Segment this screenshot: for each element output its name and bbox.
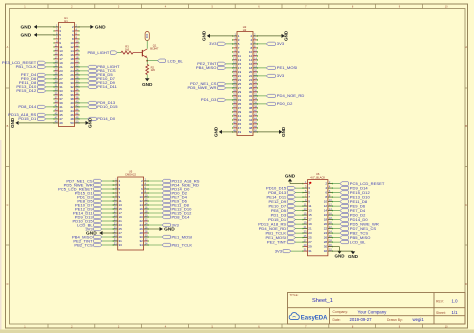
- svg-text:GND: GND: [284, 30, 289, 41]
- svg-text:PB1_TCLK: PB1_TCLK: [172, 242, 193, 247]
- svg-text:1k5: 1k5: [151, 68, 156, 72]
- svg-text:PE15_D12: PE15_D12: [16, 88, 37, 93]
- svg-text:EasyEDA: EasyEDA: [301, 316, 328, 322]
- svg-text:Company:: Company:: [333, 310, 349, 314]
- svg-text:Drawn By:: Drawn By:: [387, 318, 403, 322]
- svg-text:GND: GND: [348, 254, 359, 259]
- svg-text:15: 15: [308, 213, 312, 217]
- svg-text:PD5_NWE_WR: PD5_NWE_WR: [187, 85, 216, 90]
- svg-text:PB1_TCLK: PB1_TCLK: [16, 64, 37, 69]
- svg-text:PD15_D1: PD15_D1: [18, 116, 37, 121]
- svg-text:3V3: 3V3: [277, 73, 285, 78]
- svg-text:PD14_D0: PD14_D0: [97, 116, 116, 121]
- svg-text:PD1_D3: PD1_D3: [201, 97, 217, 102]
- svg-text:3V3: 3V3: [85, 226, 93, 231]
- svg-text:21: 21: [308, 227, 312, 231]
- svg-text:GND: GND: [95, 25, 106, 31]
- svg-text:GND: GND: [214, 126, 219, 137]
- svg-text:30: 30: [324, 245, 328, 249]
- svg-text:49: 49: [238, 130, 242, 134]
- svg-text:GND: GND: [335, 254, 346, 259]
- svg-text:REV:: REV:: [436, 299, 444, 303]
- svg-text:C: C: [465, 204, 467, 207]
- svg-text:GND: GND: [142, 82, 153, 87]
- svg-text:16: 16: [324, 213, 328, 217]
- svg-text:50: 50: [249, 130, 253, 134]
- svg-text:18: 18: [324, 218, 328, 222]
- svg-text:33: 33: [119, 243, 123, 247]
- svg-text:PD10_D15: PD10_D15: [97, 104, 118, 109]
- svg-text:11: 11: [308, 204, 311, 208]
- svg-text:Date:: Date:: [333, 318, 341, 322]
- svg-text:28: 28: [324, 240, 328, 244]
- svg-text:12: 12: [324, 204, 328, 208]
- svg-text:3V3: 3V3: [172, 222, 180, 227]
- svg-text:14: 14: [324, 209, 328, 213]
- svg-text:2019-09-27: 2019-09-27: [350, 317, 373, 322]
- svg-text:23: 23: [308, 231, 312, 235]
- svg-text:20: 20: [324, 222, 328, 226]
- svg-text:D: D: [465, 283, 467, 286]
- svg-text:PD4_NOE_RD: PD4_NOE_RD: [277, 93, 305, 98]
- svg-text:H1: H1: [64, 19, 68, 23]
- svg-text:GND: GND: [285, 174, 296, 179]
- svg-text:24: 24: [324, 231, 328, 235]
- svg-text:C: C: [7, 204, 9, 207]
- svg-text:32: 32: [324, 249, 328, 253]
- svg-text:3V3: 3V3: [275, 248, 283, 253]
- svg-text:GND: GND: [10, 117, 15, 128]
- svg-text:31: 31: [308, 249, 312, 253]
- svg-text:17: 17: [308, 218, 312, 222]
- svg-text:Sheet_1: Sheet_1: [312, 298, 333, 304]
- svg-text:Sheet:: Sheet:: [436, 311, 446, 315]
- svg-text:BC847: BC847: [150, 47, 159, 51]
- svg-text:3V3: 3V3: [209, 41, 217, 46]
- svg-text:PD0_D2: PD0_D2: [277, 101, 293, 106]
- svg-text:34: 34: [139, 243, 143, 247]
- svg-text:Your Company: Your Company: [358, 310, 388, 315]
- svg-text:PD8_D14: PD8_D14: [172, 214, 191, 219]
- svg-text:3V3: 3V3: [146, 33, 149, 38]
- svg-text:1/1: 1/1: [452, 310, 459, 315]
- svg-text:26: 26: [324, 236, 328, 240]
- svg-text:wegi1: wegi1: [413, 317, 425, 322]
- svg-text:22: 22: [324, 227, 328, 231]
- svg-text:LCD_BL: LCD_BL: [350, 239, 366, 244]
- svg-text:GND: GND: [202, 30, 207, 41]
- svg-text:13: 13: [308, 209, 312, 213]
- svg-text:LCD_BL: LCD_BL: [168, 58, 184, 63]
- svg-text:PE1_MOSI: PE1_MOSI: [277, 65, 298, 70]
- svg-text:PD8_D14: PD8_D14: [18, 104, 37, 109]
- svg-text:TITLE:: TITLE:: [290, 293, 299, 297]
- svg-text:GND: GND: [21, 33, 32, 39]
- svg-text:29: 29: [308, 245, 312, 249]
- svg-text:4.0"_BLACK: 4.0"_BLACK: [310, 175, 325, 179]
- svg-text:H2: H2: [243, 28, 247, 32]
- svg-text:PE14_D11: PE14_D11: [97, 84, 117, 89]
- svg-text:1k5: 1k5: [125, 48, 130, 52]
- svg-text:PE2_TINT: PE2_TINT: [267, 239, 287, 244]
- svg-text:PB4_MISO: PB4_MISO: [196, 65, 217, 70]
- svg-text:PB2_TCS: PB2_TCS: [74, 242, 93, 247]
- svg-text:GND: GND: [281, 126, 286, 137]
- svg-text:50: 50: [70, 121, 74, 125]
- svg-text:27: 27: [308, 240, 312, 244]
- svg-text:25: 25: [308, 236, 312, 240]
- svg-text:GND: GND: [164, 227, 175, 233]
- svg-text:PB0_LIGHT: PB0_LIGHT: [87, 50, 109, 55]
- svg-text:1.0: 1.0: [452, 299, 459, 304]
- svg-text:19: 19: [308, 222, 312, 226]
- svg-text:D: D: [7, 283, 9, 286]
- svg-text:GND: GND: [21, 25, 32, 31]
- svg-text:CMDA22: CMDA22: [125, 173, 136, 177]
- svg-text:PE1_MOSI: PE1_MOSI: [172, 234, 193, 239]
- svg-text:GND: GND: [86, 231, 97, 237]
- svg-text:GND: GND: [88, 117, 93, 128]
- svg-text:10: 10: [324, 200, 328, 204]
- svg-text:49: 49: [59, 121, 63, 125]
